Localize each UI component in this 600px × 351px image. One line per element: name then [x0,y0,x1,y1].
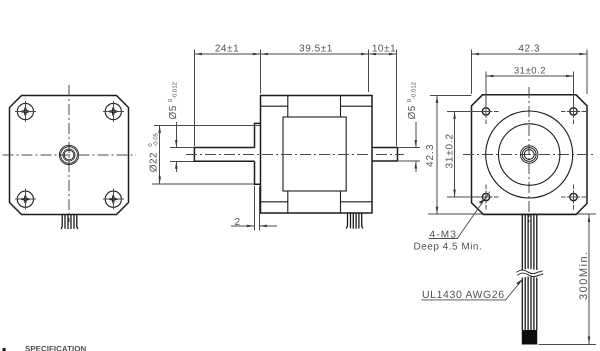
wire connector block [522,330,537,345]
leader 4-M3 [414,192,491,253]
dimension Ø5 front shaft [167,81,194,172]
svg-text:24±1: 24±1 [215,44,239,55]
dimension 10±1 [369,44,397,146]
dimension 2 boss length [231,186,277,231]
side view centerline [186,154,404,156]
rear view boss circle Ø22 [499,124,560,185]
dimension 42.3 side view height [425,96,596,215]
side view rear cap edge lines [341,96,373,214]
dimension 24±1 [194,44,260,146]
dimension 42.3 rear view width [472,44,588,94]
svg-text:300Min.: 300Min. [578,250,590,300]
rear view horizontal centerline [463,154,596,156]
svg-text:-0.012: -0.012 [172,81,179,99]
dimension 31±0.2 rear view height [445,111,482,197]
side view rear shaft [372,148,398,162]
svg-text:10±1: 10±1 [372,44,396,55]
wire bundle break symbol [517,270,544,277]
side view front cap edge lines [261,96,288,214]
mounting hole top-right [561,99,586,124]
side view front shaft [194,148,254,162]
screw top-left [15,101,36,122]
screw bottom-left [15,189,36,210]
svg-text:UL1430 AWG26: UL1430 AWG26 [422,289,505,301]
dimension 300Min. wire length [539,215,597,345]
side view pilot boss [255,123,261,184]
svg-text:Ø5: Ø5 [407,105,418,119]
svg-text:42.3: 42.3 [425,144,436,167]
leader UL1430 AWG26 [421,279,522,301]
svg-text:-0.05: -0.05 [152,132,159,146]
screw bottom-right [103,189,124,210]
svg-text:Ø22: Ø22 [149,152,160,172]
title bullet [3,348,6,351]
screw top-right [103,101,124,122]
dimension Ø22 boss [147,126,260,184]
rear view end bell circle [486,111,573,198]
front view vertical centerline [68,85,70,222]
svg-text:SPECIFICATION: SPECIFICATION [25,345,86,351]
dimension 39.5±1 [260,44,368,92]
dimension Ø5 rear shaft [399,81,421,172]
rear view shaft circles [521,146,538,163]
mounting hole top-left [474,99,499,124]
side view lead wires [346,213,363,229]
svg-text:-0.012: -0.012 [411,81,418,99]
svg-text:31±0.2: 31±0.2 [514,66,546,77]
svg-text:Ø5: Ø5 [168,105,179,119]
svg-text:31±0.2: 31±0.2 [445,133,456,168]
front view horizontal centerline [3,154,137,156]
svg-text:42.3: 42.3 [518,44,540,55]
rear view lead wire bundle upper segment [522,215,537,271]
dimension 31±0.2 rear view width [486,66,574,106]
rear view square body [472,95,588,215]
rear view lead wire bundle lower segment [522,277,537,331]
title SPECIFICATION [25,345,86,351]
side view stator stack rectangle [283,117,346,191]
svg-text:39.5±1: 39.5±1 [299,44,333,55]
svg-text:Deep 4.5 Min.: Deep 4.5 Min. [414,241,483,252]
side view body outline [261,96,373,214]
front view lead wires [61,215,78,230]
front view shaft circles [59,145,78,164]
mounting hole bottom-left [474,185,499,210]
mounting hole bottom-right [561,185,586,210]
svg-text:2: 2 [235,217,241,228]
rear view vertical centerline [528,87,530,222]
front view square body [10,96,129,215]
svg-text:4-M3: 4-M3 [430,229,458,240]
